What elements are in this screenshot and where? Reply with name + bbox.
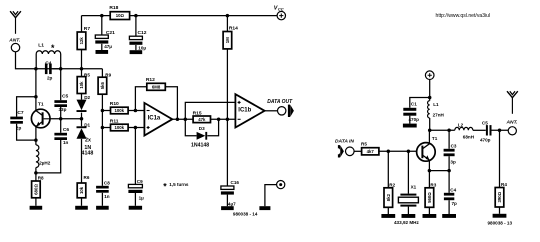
node feedback tap (176, 118, 180, 122)
svg-text:C4: C4 (45, 61, 52, 67)
label 980038-14 (233, 212, 258, 217)
symbol DATA OUT arrow (288, 105, 294, 117)
symbol DATA IN arrow (336, 145, 344, 157)
svg-text:R11: R11 (110, 119, 119, 125)
svg-text:*: * (51, 43, 55, 53)
capacitor C1 470p (403, 101, 419, 123)
wire feedback loop IC1a (135, 87, 177, 120)
resistor R15 47k (193, 110, 211, 122)
ground under R4 (493, 214, 507, 218)
svg-text:DATA IN: DATA IN (335, 138, 354, 144)
svg-text:1N4148: 1N4148 (191, 143, 209, 149)
ground under R8 (30, 206, 43, 210)
svg-text:T1: T1 (432, 136, 438, 141)
capacitor C4 2p (45, 61, 61, 81)
op-amp IC1a (144, 103, 172, 136)
connector ANT terminal (receiver) (11, 43, 19, 51)
node collector junction (428, 129, 432, 133)
wire RF line (430, 129, 455, 131)
svg-text:470p: 470p (480, 137, 491, 142)
svg-text:C3: C3 (451, 143, 457, 148)
diode D2 1N4148 (77, 95, 91, 112)
ground under X1 (402, 214, 416, 218)
svg-text:R8: R8 (38, 175, 44, 180)
resistor R5 4k7 (transmitter) (361, 142, 379, 155)
wire base wire (transmitter) (379, 150, 417, 152)
node base-diodes junction (80, 117, 84, 121)
ground under R6 (75, 206, 88, 210)
svg-text:12k: 12k (79, 37, 84, 45)
svg-text:4148: 4148 (82, 151, 94, 157)
wire antenna to tank (16, 52, 35, 69)
capacitor C12 10u electrolytic (129, 16, 146, 51)
node R14 tap (226, 14, 230, 18)
connector DATA OUT terminal (267, 99, 293, 115)
resistor R9 5k6 (98, 69, 112, 186)
svg-text:68nH: 68nH (463, 135, 475, 140)
transistor T1 (receiver) (31, 102, 50, 128)
wire main input rail (36, 68, 103, 70)
svg-text:27nH: 27nH (433, 113, 445, 118)
svg-text:L1: L1 (433, 102, 439, 107)
svg-text:T1: T1 (38, 102, 44, 108)
resistor R10 100k (102, 101, 144, 114)
svg-text:10Ω: 10Ω (116, 13, 125, 18)
svg-text:2µH2: 2µH2 (39, 160, 51, 165)
svg-text:680Ω: 680Ω (33, 184, 38, 195)
ground under C12 (130, 45, 143, 54)
svg-text:5k6: 5k6 (100, 82, 105, 90)
resistor R2 8k2 (384, 151, 396, 214)
svg-text:1M: 1M (225, 37, 230, 43)
node C3 top (447, 129, 451, 133)
svg-text:DATA OUT: DATA OUT (267, 99, 293, 105)
svg-text:4µ7: 4µ7 (228, 202, 236, 207)
svg-text:47k: 47k (198, 117, 206, 122)
svg-text:C5: C5 (482, 120, 488, 125)
svg-text:1,5 turns: 1,5 turns (169, 182, 189, 187)
svg-text:http://www.qsl.net/va3iul: http://www.qsl.net/va3iul (436, 13, 491, 19)
label 980038-13 (488, 220, 513, 225)
wire base wire (50, 118, 82, 120)
svg-text:433,92 MHz: 433,92 MHz (394, 220, 419, 225)
capacitor C4 7p (444, 171, 457, 214)
resistor R12 6M8 (146, 77, 165, 90)
wire L2 to C5 (473, 129, 486, 131)
node C5 column junction (59, 67, 63, 71)
svg-text:R14: R14 (229, 26, 238, 32)
svg-text:D3: D3 (199, 126, 205, 131)
node R14 column on inverting wire (226, 118, 230, 122)
capacitor C8 1n (96, 180, 110, 205)
ground under C8 (96, 206, 109, 210)
wire R14 column to C16 (226, 119, 228, 186)
svg-text:4k7: 4k7 (367, 149, 375, 154)
label DATA IN (335, 138, 354, 144)
wire D1 anode to R6 (81, 139, 83, 183)
svg-text:C16: C16 (231, 180, 240, 185)
svg-text:L2: L2 (458, 122, 464, 127)
label 2x 1N4148 (82, 138, 94, 157)
svg-text:C9: C9 (137, 179, 143, 184)
svg-text:R12: R12 (146, 77, 155, 83)
wire collector column (35, 69, 37, 111)
label url (436, 13, 491, 19)
node antenna junction (498, 129, 502, 133)
node R2 tap (387, 150, 391, 154)
svg-text:R5: R5 (361, 142, 367, 147)
wire C5 to antenna (490, 129, 509, 131)
capacitor C5 470p (transmitter) (480, 120, 492, 142)
node C7 top tap (34, 95, 38, 99)
node base-C5C6 junction (59, 117, 63, 121)
ground under R3 (423, 214, 437, 218)
ground under C21 (96, 44, 109, 54)
svg-text:C5: C5 (62, 93, 69, 99)
node emitter junction (34, 138, 38, 142)
node non-inverting input IC1a (134, 126, 138, 130)
power + terminal (transmitter) (425, 71, 434, 80)
svg-text:2p: 2p (47, 75, 53, 80)
wire collector (transmitter) (428, 130, 430, 143)
inductor 2uH2 emitter choke (36, 140, 51, 173)
resistor R11 100k (102, 119, 144, 131)
node tank left / collector column (34, 67, 38, 71)
node vcc junction (428, 96, 432, 100)
svg-text:47µ: 47µ (104, 44, 112, 49)
svg-text:R3: R3 (430, 183, 436, 188)
svg-text:C6: C6 (63, 127, 70, 133)
connector DATA IN terminal (346, 147, 355, 156)
svg-text:1µ: 1µ (139, 195, 145, 200)
transistor T1 (transmitter) (417, 136, 438, 161)
svg-text:R10: R10 (110, 101, 119, 107)
resistor R7 12k (77, 16, 90, 69)
wire DATA IN to R5 (354, 150, 362, 152)
svg-text:7p: 7p (452, 201, 458, 206)
svg-text:C21: C21 (106, 30, 115, 36)
diode D1 1N4148 (77, 119, 91, 139)
svg-text:10k: 10k (79, 186, 84, 194)
svg-text:980038 - 13: 980038 - 13 (488, 220, 513, 225)
capacitor C21 47u electrolytic (95, 16, 115, 50)
label 433.92 MHz (394, 220, 419, 225)
svg-text:390Ω: 390Ω (497, 191, 502, 202)
inductor L1 (receiver tank) (36, 42, 61, 68)
svg-text:10k: 10k (79, 81, 84, 89)
node emitter-choke bottom junction (34, 171, 38, 175)
wire IC1b output (265, 110, 278, 112)
resistor R8 680Ohm (32, 173, 44, 206)
resistor R18 10Ohm (109, 5, 129, 19)
crystal X1 433.92MHz (398, 151, 418, 214)
ground under terminal (259, 206, 270, 210)
inductor L1 27nH (transmitter) (428, 98, 445, 131)
capacitor C9 1u electrolytic (128, 128, 144, 206)
svg-text:C7: C7 (17, 110, 24, 116)
capacitor C6 1n (37, 119, 69, 173)
svg-text:980038 - 14: 980038 - 14 (233, 212, 258, 217)
wire vcc to C1 (410, 98, 430, 108)
svg-text:R9: R9 (105, 72, 111, 77)
resistor R6 10k (77, 175, 90, 206)
resistor R4 390Ohm (495, 130, 507, 214)
connector ANT terminal (transmitter) (508, 127, 516, 135)
svg-text:ANT.: ANT. (8, 38, 20, 44)
svg-text:*: * (163, 182, 167, 192)
node R15-D3 right (217, 118, 221, 122)
svg-text:X1: X1 (411, 185, 417, 190)
wire D2 cathode to base wire (81, 113, 83, 119)
ground under C16 (221, 206, 234, 210)
wire top supply rail (82, 15, 278, 17)
svg-text:R4: R4 (501, 182, 507, 187)
inductor L2 68nH (455, 122, 475, 139)
connector ground terminal (265, 181, 285, 207)
svg-text:D1: D1 (84, 122, 90, 127)
node R10 left (101, 109, 105, 113)
svg-text:10µ: 10µ (138, 45, 146, 50)
resistor R14 1M (223, 16, 238, 120)
capacitor C16 4u7 electrolytic (221, 180, 239, 207)
capacitor C7 2p (10, 97, 36, 140)
resistor R5 10k (77, 69, 90, 100)
svg-text:ANT.: ANT. (506, 119, 518, 125)
node R7-R5 column junction (80, 67, 84, 71)
wire D3 loop (185, 119, 218, 136)
wire vcc stem (429, 80, 431, 98)
antenna ANT (receiver) (8, 11, 21, 43)
node R15-D3 left (184, 118, 188, 122)
svg-text:R18: R18 (109, 5, 118, 11)
svg-text:33p: 33p (59, 107, 67, 112)
ground under C4 (442, 214, 456, 218)
node emitter junction (transmitter) (428, 169, 432, 173)
node inverting input IC1a (134, 109, 138, 113)
svg-text:1n: 1n (63, 140, 69, 145)
op-amp IC1b (235, 94, 264, 127)
svg-text:R7: R7 (84, 26, 91, 32)
diode D3 1N4148 (191, 126, 209, 148)
wire emitter to node (35, 126, 37, 140)
node C21 tap (100, 14, 104, 18)
capacitor C5 33p (54, 69, 68, 119)
svg-text:R15: R15 (193, 110, 202, 116)
svg-text:R6: R6 (84, 175, 90, 180)
svg-text:1n: 1n (104, 194, 110, 199)
wire IC1a output (172, 118, 235, 120)
svg-text:CC: CC (278, 6, 284, 11)
resistor R3 560Ohm (425, 171, 437, 214)
antenna ANT (transmitter) (506, 91, 518, 125)
ground under R2 (381, 214, 395, 218)
svg-text:C4: C4 (450, 188, 456, 193)
svg-text:C1: C1 (411, 101, 417, 106)
capacitor C3 3p (444, 130, 457, 170)
node X1 tap (407, 150, 411, 154)
wire emitter to C3C4 (429, 170, 449, 172)
ground under C1 (403, 124, 417, 128)
wire IC1b non-inverting input (185, 102, 235, 119)
label 1.5 turns note (163, 182, 189, 192)
svg-text:C8: C8 (104, 180, 110, 185)
node C3-C4 junction (447, 169, 451, 173)
node R11 left (101, 126, 105, 130)
svg-text:C12: C12 (138, 30, 147, 36)
svg-text:3p: 3p (450, 160, 456, 165)
svg-text:100k: 100k (115, 108, 125, 113)
power Vcc terminal (274, 5, 286, 19)
svg-text:6M8: 6M8 (152, 84, 161, 89)
svg-text:IC1b: IC1b (238, 108, 251, 114)
node C12 tap (134, 14, 138, 18)
svg-text:R5: R5 (84, 72, 90, 77)
svg-text:2x: 2x (85, 138, 91, 144)
svg-text:100k: 100k (115, 125, 125, 130)
svg-text:L1: L1 (38, 42, 44, 48)
svg-text:D2: D2 (84, 95, 90, 100)
svg-text:560Ω: 560Ω (427, 192, 432, 203)
svg-text:8k2: 8k2 (386, 193, 391, 201)
svg-text:R2: R2 (389, 183, 395, 188)
ground under C9 (129, 206, 142, 210)
svg-text:IC1a: IC1a (148, 116, 161, 122)
wire emitter (transmitter) (428, 160, 430, 170)
